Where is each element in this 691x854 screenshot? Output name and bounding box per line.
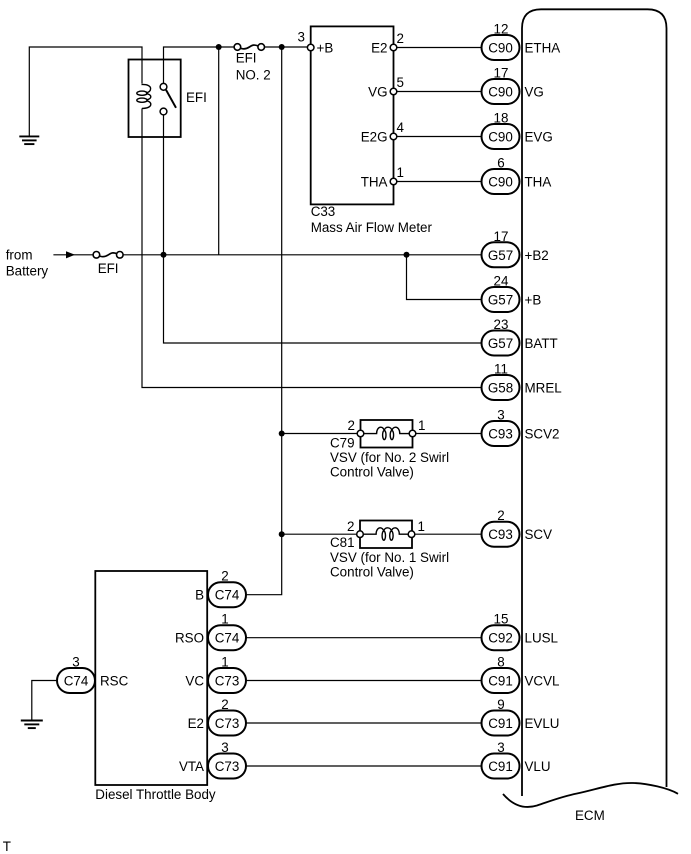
connector C93 pin 2 (SCV)	[482, 508, 553, 547]
svg-text:3: 3	[497, 740, 504, 755]
junction on +B net feeding B/SCV vertical	[279, 44, 285, 50]
svg-text:C90: C90	[488, 41, 513, 56]
connector C91 pin 3 (VLU)	[482, 740, 551, 779]
svg-text:EFI: EFI	[98, 261, 119, 276]
VSV C81 (No.1 Swirl Control Valve)	[330, 519, 449, 580]
fuse EFI NO. 2	[234, 44, 271, 83]
svg-text:C90: C90	[488, 175, 513, 190]
svg-text:B: B	[195, 588, 204, 603]
svg-text:C92: C92	[488, 631, 513, 646]
C33 pin 1 THA	[361, 165, 404, 190]
svg-text:1: 1	[418, 519, 425, 534]
connector C90 pin 17 (VG)	[482, 66, 544, 105]
svg-text:2: 2	[497, 508, 504, 523]
svg-text:24: 24	[494, 274, 509, 289]
svg-text:3: 3	[72, 655, 79, 670]
svg-text:G57: G57	[488, 336, 513, 351]
svg-text:17: 17	[494, 229, 509, 244]
svg-text:2: 2	[221, 569, 228, 584]
svg-text:THA: THA	[525, 175, 552, 190]
C33 pin 2 E2	[371, 31, 404, 56]
wire: junction to VSV C79	[282, 433, 361, 435]
svg-text:C74: C74	[64, 674, 89, 689]
svg-text:E2G: E2G	[361, 130, 388, 145]
connector C91 pin 8 (VCVL)	[482, 655, 560, 694]
wire: E2G pin to C90	[394, 136, 482, 138]
svg-text:C93: C93	[488, 427, 513, 442]
svg-text:THA: THA	[361, 175, 388, 190]
svg-text:SCV2: SCV2	[525, 427, 560, 442]
svg-text:LUSL: LUSL	[525, 631, 559, 646]
svg-text:BATT: BATT	[525, 336, 558, 351]
connector C90 pin 6 (THA)	[482, 156, 552, 195]
fuse EFI (battery)	[93, 252, 123, 277]
svg-text:NO. 2: NO. 2	[236, 67, 271, 82]
svg-text:E2: E2	[371, 41, 387, 56]
svg-text:1: 1	[397, 165, 404, 180]
relay EFI switch	[160, 83, 176, 115]
svg-text:23: 23	[494, 317, 509, 332]
C33 Mass Air Flow Meter box	[311, 26, 394, 204]
connector C73 pin 3 (VTA)	[208, 740, 246, 779]
svg-text:VCVL: VCVL	[525, 674, 560, 689]
connector G58 pin 11 (MREL)	[482, 362, 562, 401]
svg-text:4: 4	[397, 120, 405, 135]
connector C73 pin 2 (E2)	[208, 697, 246, 736]
wire: battery fuse to +B2 (G57)	[123, 254, 482, 256]
svg-text:1: 1	[221, 612, 228, 627]
svg-text:3: 3	[221, 740, 228, 755]
svg-text:1: 1	[221, 655, 228, 670]
svg-text:2: 2	[397, 31, 404, 46]
connector C93 pin 3 (SCV2)	[482, 408, 560, 447]
svg-text:6: 6	[497, 156, 504, 171]
svg-text:ECM: ECM	[575, 808, 605, 823]
svg-text:C74: C74	[215, 631, 240, 646]
svg-text:VSV (for No. 2 Swirl: VSV (for No. 2 Swirl	[330, 450, 449, 465]
wire: relay switch top to fuse / +B pin (node +B)	[164, 47, 235, 84]
connector C92 pin 15 (LUSL)	[482, 612, 559, 651]
wire: VSV C81 to C93	[412, 533, 482, 535]
wire: THA pin to C90	[394, 181, 482, 183]
connector G57 pin 24 (+B)	[482, 274, 542, 313]
svg-text:C81: C81	[330, 535, 355, 550]
svg-text:3: 3	[497, 408, 504, 423]
wire: E2 to EVLU	[246, 722, 482, 724]
relay EFI coil	[137, 84, 151, 108]
wire: long vertical from +B net down to B pin of C74	[246, 47, 282, 595]
svg-text:5: 5	[397, 75, 404, 90]
wire: VSV C79 to C93	[413, 433, 482, 435]
C33 pin 5 VG	[368, 75, 404, 100]
svg-text:C91: C91	[488, 674, 513, 689]
junction SCV branch	[279, 531, 285, 537]
svg-text:17: 17	[494, 66, 509, 81]
svg-text:VSV (for No. 1 Swirl: VSV (for No. 1 Swirl	[330, 550, 449, 565]
wire: RSO to LUSL	[246, 637, 482, 639]
ECM wavy bottom edge	[503, 783, 678, 807]
svg-text:15: 15	[494, 612, 509, 627]
svg-text:C73: C73	[215, 716, 240, 731]
svg-text:C93: C93	[488, 527, 513, 542]
svg-text:EFI: EFI	[236, 50, 257, 65]
Diesel Throttle Body box	[95, 571, 207, 785]
svg-text:+B: +B	[317, 41, 334, 56]
svg-text:3: 3	[298, 30, 305, 45]
svg-text:1: 1	[418, 418, 425, 433]
svg-text:C74: C74	[215, 588, 240, 603]
ECM body outline	[522, 9, 667, 796]
svg-text:T: T	[3, 839, 11, 854]
wire: VG pin to C90	[394, 91, 482, 93]
connector C74 pin 3 (RSC)	[57, 655, 95, 694]
svg-text:11: 11	[494, 362, 508, 377]
relay EFI box	[129, 60, 181, 138]
svg-text:C73: C73	[215, 674, 240, 689]
svg-text:ETHA: ETHA	[525, 41, 561, 56]
wire: fuse right to C33 +B pin	[264, 46, 310, 48]
from Battery source arrow and wire	[6, 248, 94, 279]
svg-text:SCV: SCV	[525, 527, 553, 542]
svg-text:from: from	[6, 248, 33, 263]
svg-text:VG: VG	[368, 85, 387, 100]
C33 pin 4 E2G	[361, 120, 405, 145]
connector C90 pin 12 (ETHA)	[482, 22, 561, 61]
svg-text:C91: C91	[488, 716, 513, 731]
svg-text:Mass Air Flow Meter: Mass Air Flow Meter	[311, 220, 433, 235]
wire: VC to VCVL	[246, 680, 482, 682]
svg-text:12: 12	[494, 22, 509, 37]
ground G2 (bottom left)	[21, 721, 43, 729]
svg-text:2: 2	[221, 697, 228, 712]
svg-text:VC: VC	[185, 674, 204, 689]
svg-text:2: 2	[347, 519, 354, 534]
svg-text:Battery: Battery	[6, 264, 49, 279]
svg-text:C33: C33	[311, 204, 336, 219]
svg-text:Control Valve): Control Valve)	[330, 465, 414, 480]
connector G57 pin 17 (+B2)	[482, 229, 549, 267]
connector C91 pin 9 (EVLU)	[482, 697, 560, 736]
svg-text:C79: C79	[330, 435, 355, 450]
junction SCV2 branch	[279, 431, 285, 437]
svg-text:VTA: VTA	[179, 759, 204, 774]
svg-text:E2: E2	[188, 716, 204, 731]
svg-text:EFI: EFI	[186, 90, 207, 105]
wire: VTA to VLU	[246, 765, 482, 767]
connector C90 pin 18 (EVG)	[482, 111, 553, 150]
svg-text:C73: C73	[215, 759, 240, 774]
ground G1 (top left)	[19, 136, 39, 144]
connector C74 pin 2 (B)	[208, 569, 246, 608]
svg-text:8: 8	[497, 655, 504, 670]
connector C74 pin 1 (RSO)	[208, 612, 246, 651]
junction battery line / switch vertical	[161, 252, 167, 258]
svg-text:C90: C90	[488, 130, 513, 145]
svg-text:RSC: RSC	[100, 674, 129, 689]
wire: ground G1 to relay coil top	[29, 47, 142, 136]
VSV C79 (No.2 Swirl Control Valve)	[330, 418, 449, 480]
svg-text:9: 9	[497, 697, 504, 712]
junction at fuse left / vertical to +B2 line	[216, 44, 222, 50]
svg-text:Diesel Throttle Body: Diesel Throttle Body	[95, 787, 216, 802]
svg-text:RSO: RSO	[175, 631, 204, 646]
junction +B2 line / +B branch	[404, 252, 410, 258]
wire: relay coil bottom to MREL	[142, 109, 482, 388]
wire: RSC to ground G2	[32, 681, 57, 720]
wire: junction to VSV C81	[282, 533, 360, 535]
svg-text:+B: +B	[525, 293, 542, 308]
connector C73 pin 1 (VC)	[208, 655, 246, 694]
svg-text:C91: C91	[488, 759, 513, 774]
svg-text:G57: G57	[488, 293, 513, 308]
wire: E2 pin to C90	[394, 47, 482, 49]
wire: branch down to +B (G57-24)	[407, 255, 482, 300]
svg-text:C90: C90	[488, 85, 513, 100]
svg-text:18: 18	[494, 111, 509, 126]
connector G57 pin 23 (BATT)	[482, 317, 558, 356]
svg-text:EVG: EVG	[525, 130, 553, 145]
svg-text:Control Valve): Control Valve)	[330, 565, 414, 580]
svg-text:VLU: VLU	[525, 759, 551, 774]
svg-text:EVLU: EVLU	[525, 716, 560, 731]
svg-text:+B2: +B2	[525, 248, 549, 263]
C33 pin 3 +B	[298, 30, 334, 56]
wire: relay switch bottom to BATT	[164, 115, 482, 343]
wire: junction down to +B2 line	[218, 47, 220, 255]
svg-text:G58: G58	[488, 381, 513, 396]
svg-text:2: 2	[348, 418, 355, 433]
svg-text:MREL: MREL	[525, 381, 562, 396]
svg-text:VG: VG	[525, 85, 544, 100]
svg-text:G57: G57	[488, 248, 513, 263]
